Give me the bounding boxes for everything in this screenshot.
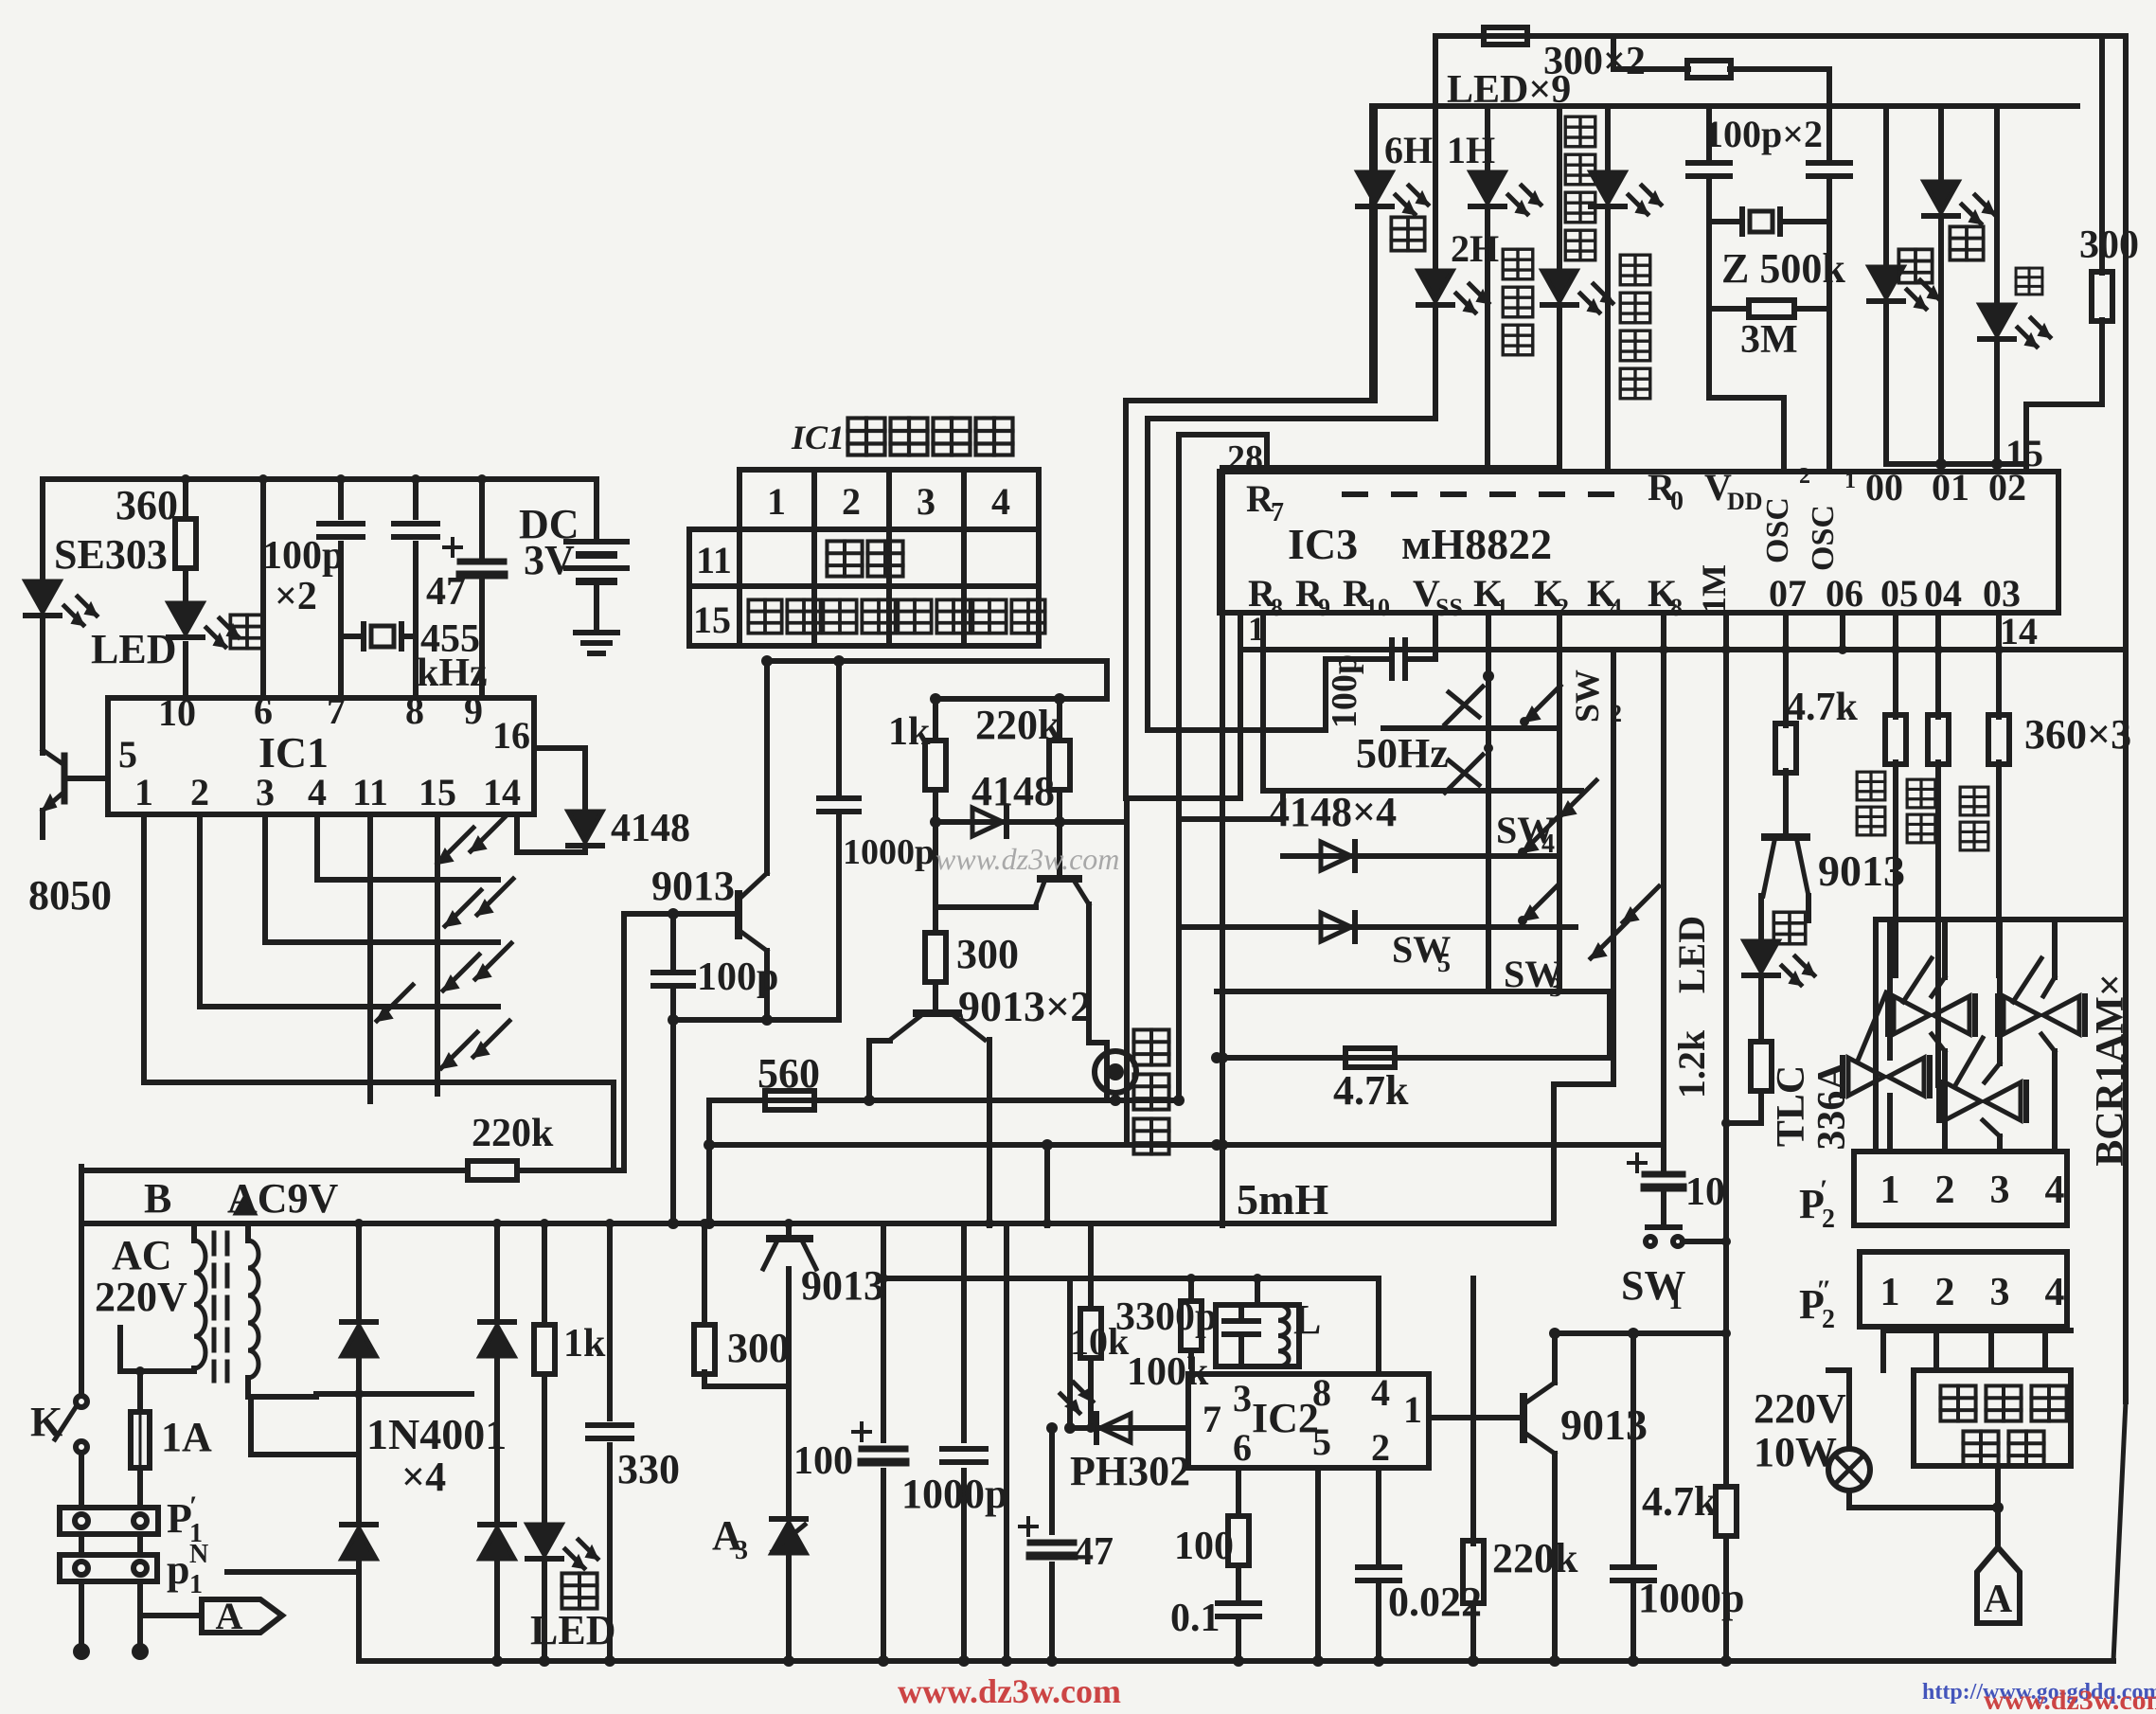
svg-text:100p: 100p xyxy=(1325,654,1364,728)
svg-text:SW: SW xyxy=(1568,670,1606,723)
svg-text:4148: 4148 xyxy=(611,807,690,850)
svg-text:SS: SS xyxy=(1435,594,1463,621)
svg-text:10W: 10W xyxy=(1754,1429,1837,1475)
svg-text:06: 06 xyxy=(1826,572,1863,615)
svg-text:2: 2 xyxy=(1371,1426,1390,1469)
svg-text:N: N xyxy=(189,1540,208,1569)
svg-text:300: 300 xyxy=(956,931,1019,977)
svg-text:IC2: IC2 xyxy=(1252,1395,1319,1441)
svg-text:7: 7 xyxy=(327,689,346,732)
svg-text:1000p: 1000p xyxy=(901,1471,1007,1517)
svg-text:1A: 1A xyxy=(161,1414,212,1460)
svg-text:02: 02 xyxy=(1988,466,2026,509)
svg-text:300: 300 xyxy=(727,1325,790,1371)
svg-text:4: 4 xyxy=(1371,1371,1390,1414)
svg-text:1M: 1M xyxy=(1695,564,1733,614)
svg-text:2: 2 xyxy=(1822,1305,1835,1334)
svg-text:100p: 100p xyxy=(262,534,344,578)
svg-text:5: 5 xyxy=(118,733,137,776)
svg-text:220V: 220V xyxy=(95,1274,187,1320)
svg-text:4: 4 xyxy=(1610,594,1622,621)
svg-text:IC3: IC3 xyxy=(1288,520,1358,568)
svg-text:1: 1 xyxy=(1880,1169,1900,1212)
svg-text:3V: 3V xyxy=(524,537,575,583)
svg-text:16: 16 xyxy=(492,714,530,757)
svg-text:DD: DD xyxy=(1727,488,1763,515)
svg-text:2: 2 xyxy=(190,771,209,813)
svg-text:3M: 3M xyxy=(1740,318,1798,362)
svg-text:3: 3 xyxy=(917,480,935,523)
svg-text:7: 7 xyxy=(1271,498,1284,527)
svg-text:A: A xyxy=(216,1595,243,1637)
svg-text:100p×2: 100p×2 xyxy=(1704,113,1823,155)
svg-text:K: K xyxy=(30,1399,62,1445)
svg-text:10: 10 xyxy=(1365,594,1390,621)
svg-text:15: 15 xyxy=(693,598,731,641)
svg-text:1.2k: 1.2k xyxy=(1670,1029,1713,1098)
svg-text:′: ′ xyxy=(189,1491,197,1522)
svg-text:2: 2 xyxy=(1935,1169,1955,1212)
svg-text:4: 4 xyxy=(308,771,327,813)
svg-text:3: 3 xyxy=(1549,973,1562,1003)
svg-text:LED: LED xyxy=(530,1607,615,1653)
svg-text:220k: 220k xyxy=(472,1112,554,1155)
svg-text:9013×2: 9013×2 xyxy=(958,982,1092,1030)
svg-text:100: 100 xyxy=(793,1439,853,1483)
svg-text:P: P xyxy=(167,1495,192,1542)
svg-text:′: ′ xyxy=(1820,1174,1827,1205)
svg-text:9013: 9013 xyxy=(801,1262,884,1309)
svg-text:5: 5 xyxy=(1312,1420,1331,1463)
svg-text:1: 1 xyxy=(1668,1284,1683,1315)
svg-text:1N4001: 1N4001 xyxy=(366,1410,507,1458)
svg-text:3: 3 xyxy=(735,1536,748,1565)
svg-text:05: 05 xyxy=(1880,572,1918,615)
svg-text:p: p xyxy=(167,1546,189,1593)
svg-text:10: 10 xyxy=(158,691,196,734)
svg-text:6: 6 xyxy=(254,689,273,732)
svg-text:L: L xyxy=(1293,1296,1321,1343)
svg-text:×2: ×2 xyxy=(275,575,317,618)
svg-text:336A: 336A xyxy=(1810,1062,1854,1151)
svg-text:мH8822: мH8822 xyxy=(1401,520,1552,568)
svg-text:1: 1 xyxy=(134,771,153,813)
svg-text:28: 28 xyxy=(1227,438,1263,478)
svg-text:300: 300 xyxy=(2079,223,2139,267)
svg-text:04: 04 xyxy=(1924,572,1962,615)
svg-text:www.dz3w.com: www.dz3w.com xyxy=(898,1672,1121,1709)
svg-text:www.dz3w.com: www.dz3w.com xyxy=(935,842,1119,876)
svg-text:01: 01 xyxy=(1932,466,1969,509)
svg-text:2: 2 xyxy=(842,480,861,523)
svg-text:9: 9 xyxy=(1318,594,1330,621)
svg-text:1H: 1H xyxy=(1447,129,1495,171)
svg-text:TLC: TLC xyxy=(1770,1065,1813,1147)
svg-text:LED: LED xyxy=(91,626,176,672)
svg-text:1k: 1k xyxy=(563,1322,606,1366)
svg-text:IC1: IC1 xyxy=(791,419,845,456)
svg-text:11: 11 xyxy=(696,539,732,581)
svg-text:8: 8 xyxy=(1312,1371,1331,1414)
svg-text:4148×4: 4148×4 xyxy=(1269,789,1397,835)
svg-text:2: 2 xyxy=(1822,1205,1835,1234)
svg-text:2: 2 xyxy=(1935,1271,1955,1314)
svg-text:www.dz3w.com: www.dz3w.com xyxy=(1984,1685,2156,1709)
svg-text:B: B xyxy=(144,1175,171,1222)
svg-text:220k: 220k xyxy=(1492,1535,1578,1581)
svg-text:1: 1 xyxy=(767,480,786,523)
svg-text:1: 1 xyxy=(1403,1388,1422,1431)
svg-text:8: 8 xyxy=(405,689,424,732)
svg-text:8: 8 xyxy=(1271,594,1283,621)
svg-text:4.7k: 4.7k xyxy=(1786,686,1859,729)
svg-text:07: 07 xyxy=(1769,572,1807,615)
svg-text:6: 6 xyxy=(1233,1426,1252,1469)
svg-text:220V: 220V xyxy=(1754,1385,1846,1432)
svg-text:9013: 9013 xyxy=(1560,1401,1648,1449)
svg-text:4: 4 xyxy=(2045,1169,2065,1212)
svg-text:7: 7 xyxy=(1203,1398,1221,1440)
svg-text:2: 2 xyxy=(1799,464,1810,489)
svg-text:1: 1 xyxy=(189,1570,203,1599)
svg-text:″: ″ xyxy=(1816,1275,1832,1306)
svg-text:A: A xyxy=(1984,1578,2013,1621)
svg-text:10k: 10k xyxy=(1070,1320,1130,1363)
svg-text:1: 1 xyxy=(1496,594,1508,621)
svg-text:AC: AC xyxy=(112,1232,172,1278)
svg-text:220k: 220k xyxy=(975,702,1061,748)
svg-text:2H: 2H xyxy=(1451,227,1499,270)
svg-text:×4: ×4 xyxy=(401,1454,446,1500)
svg-text:47: 47 xyxy=(426,570,466,614)
svg-text:00: 00 xyxy=(1865,466,1903,509)
svg-text:15: 15 xyxy=(419,771,456,813)
svg-text:03: 03 xyxy=(1983,572,2021,615)
svg-text:11: 11 xyxy=(352,771,388,813)
svg-text:4: 4 xyxy=(2045,1271,2065,1314)
svg-text:0.1: 0.1 xyxy=(1170,1597,1221,1640)
svg-text:10: 10 xyxy=(1685,1170,1725,1214)
svg-text:1: 1 xyxy=(1880,1271,1900,1314)
svg-text:8: 8 xyxy=(1670,594,1683,621)
svg-text:9: 9 xyxy=(464,689,483,732)
svg-text:SE303: SE303 xyxy=(54,531,168,578)
svg-text:9013: 9013 xyxy=(651,863,735,909)
svg-text:3: 3 xyxy=(1990,1169,2010,1212)
svg-text:IC1: IC1 xyxy=(258,728,329,777)
svg-text:3: 3 xyxy=(1233,1377,1252,1419)
svg-text:0: 0 xyxy=(1670,487,1684,516)
svg-text:330: 330 xyxy=(617,1446,680,1492)
svg-text:4: 4 xyxy=(1541,830,1555,859)
svg-text:1: 1 xyxy=(1844,469,1856,493)
svg-text:560: 560 xyxy=(757,1050,820,1097)
svg-text:3: 3 xyxy=(1990,1271,2010,1314)
svg-text:4148: 4148 xyxy=(971,768,1055,814)
svg-text:100: 100 xyxy=(1174,1525,1234,1568)
svg-text:4: 4 xyxy=(991,480,1010,523)
svg-text:14: 14 xyxy=(2000,610,2038,652)
svg-text:360×3: 360×3 xyxy=(2024,711,2131,758)
svg-text:PH302: PH302 xyxy=(1070,1448,1190,1494)
svg-text:9013: 9013 xyxy=(1818,847,1905,895)
svg-text:100p: 100p xyxy=(697,955,778,999)
svg-text:1000p: 1000p xyxy=(1638,1575,1744,1621)
svg-text:47: 47 xyxy=(1074,1530,1114,1574)
svg-text:5: 5 xyxy=(1437,949,1451,978)
svg-text:8050: 8050 xyxy=(28,872,112,919)
svg-text:4.7k: 4.7k xyxy=(1333,1067,1409,1114)
svg-text:3: 3 xyxy=(256,771,275,813)
svg-text:50Hz: 50Hz xyxy=(1356,730,1449,777)
svg-text:OSC: OSC xyxy=(1760,497,1795,563)
svg-text:14: 14 xyxy=(483,771,521,813)
svg-text:OSC: OSC xyxy=(1806,505,1841,571)
svg-text:LED: LED xyxy=(1670,916,1713,993)
svg-text:360: 360 xyxy=(116,482,178,528)
svg-text:5mH: 5mH xyxy=(1237,1175,1328,1223)
svg-text:6H: 6H xyxy=(1384,129,1433,171)
svg-text:1k: 1k xyxy=(888,710,931,754)
svg-text:4.7k: 4.7k xyxy=(1642,1478,1718,1525)
svg-text:1000p: 1000p xyxy=(843,832,935,872)
